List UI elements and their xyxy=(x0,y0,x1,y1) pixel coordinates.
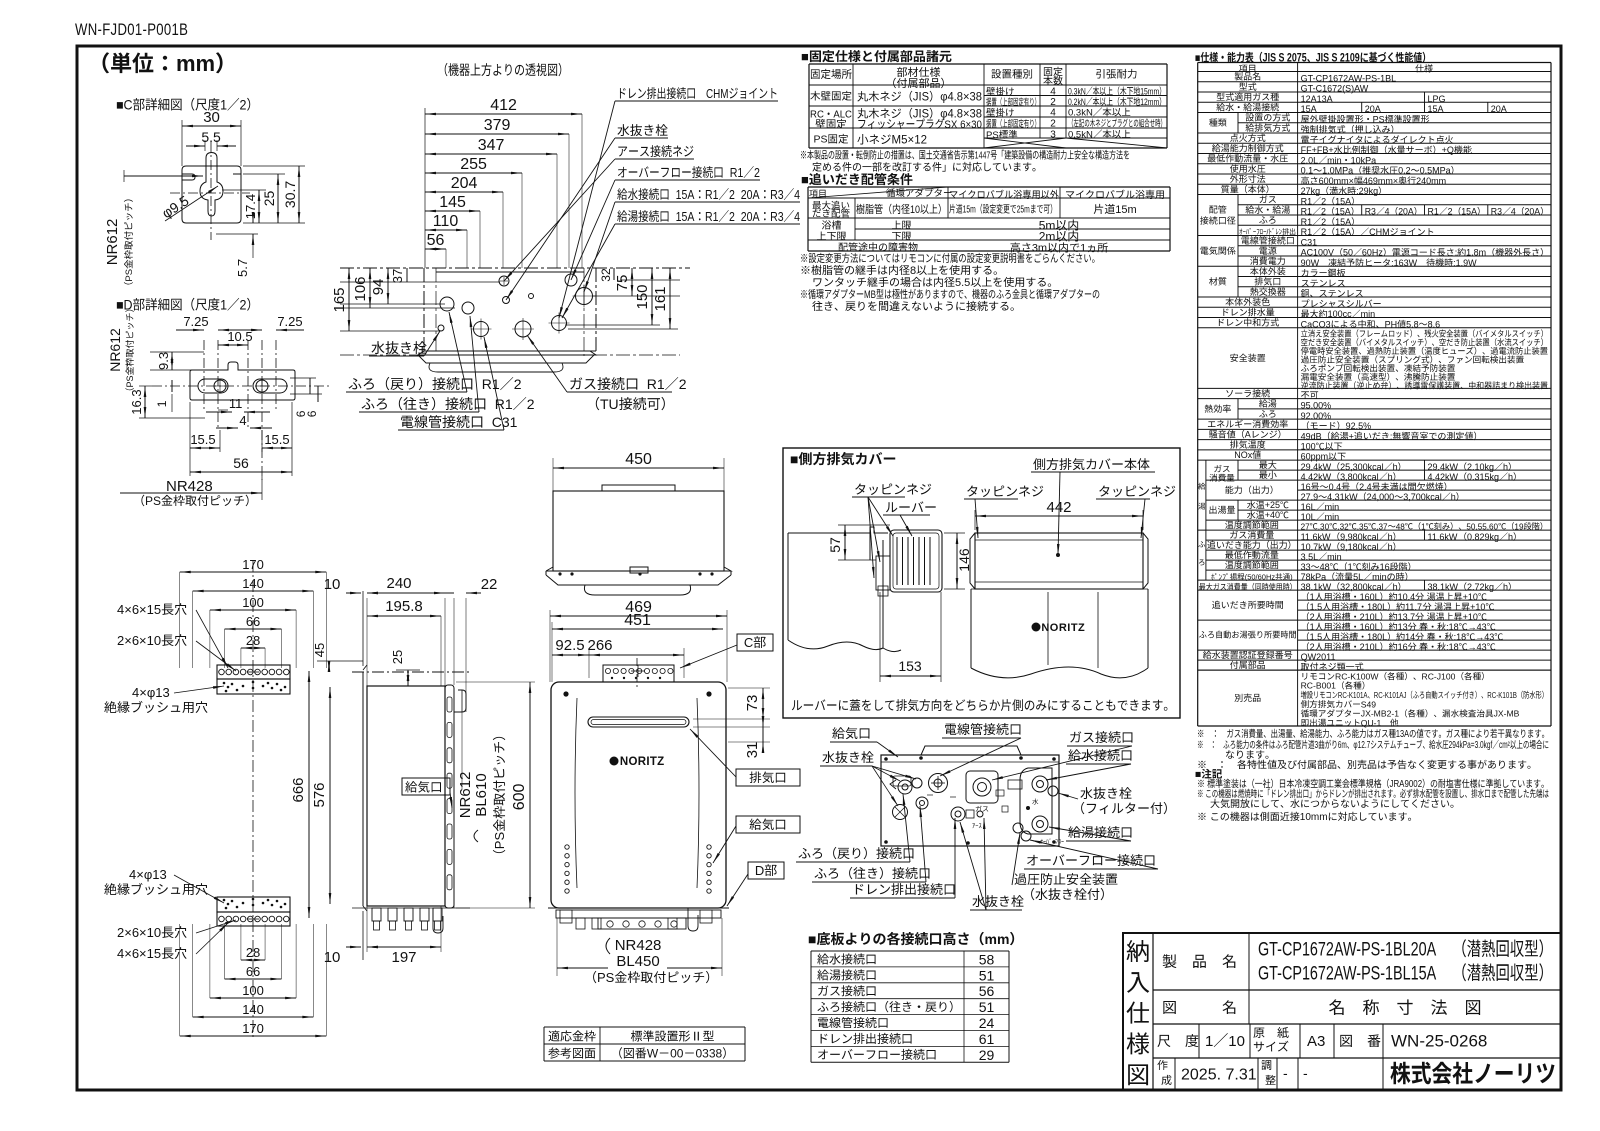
svg-text:min: min xyxy=(1325,512,1340,522)
svg-text:R1: R1 xyxy=(705,187,718,202)
svg-text:4: 4 xyxy=(239,413,246,428)
svg-text:PS: PS xyxy=(145,494,161,508)
svg-text:32: 32 xyxy=(599,268,613,282)
svg-text:■: ■ xyxy=(790,451,798,467)
svg-text:100cc: 100cc xyxy=(1328,309,1353,319)
svg-text:100: 100 xyxy=(1301,442,1316,452)
svg-text:19: 19 xyxy=(1514,522,1523,531)
svg-text:15A: 15A xyxy=(1335,217,1351,227)
svg-text:JX-MB: JX-MB xyxy=(1494,709,1520,719)
svg-text:7.25: 7.25 xyxy=(183,314,208,329)
svg-text:R1: R1 xyxy=(474,376,500,392)
svg-text:90W: 90W xyxy=(1301,258,1320,268)
svg-text:165: 165 xyxy=(331,287,348,312)
svg-text:24: 24 xyxy=(979,1015,995,1031)
svg-text:1.5: 1.5 xyxy=(1310,632,1323,642)
svg-text:NORITZ: NORITZ xyxy=(1041,622,1085,634)
svg-text:2: 2 xyxy=(679,376,687,392)
svg-text:106: 106 xyxy=(352,276,369,301)
svg-text:13.7: 13.7 xyxy=(1398,612,1416,622)
svg-text:29: 29 xyxy=(979,1047,995,1063)
svg-text:A: A xyxy=(1245,430,1251,440)
svg-text:h: h xyxy=(1388,532,1393,542)
svg-text:-: - xyxy=(1303,1065,1308,1081)
svg-text:600: 600 xyxy=(511,784,528,811)
svg-text:450: 450 xyxy=(625,451,652,468)
svg-text:CHM: CHM xyxy=(706,88,729,102)
svg-text:204: 204 xyxy=(451,175,478,192)
svg-text:RC: RC xyxy=(810,109,824,120)
svg-text:2: 2 xyxy=(1321,217,1326,227)
svg-text:CaCO3: CaCO3 xyxy=(1301,319,1331,329)
svg-text:14: 14 xyxy=(1405,632,1415,642)
svg-text:0.4: 0.4 xyxy=(1329,482,1342,492)
svg-text:LPG: LPG xyxy=(1428,94,1446,104)
svg-text:10.7kW: 10.7kW xyxy=(1301,542,1332,552)
svg-text:7.25: 7.25 xyxy=(277,314,302,329)
svg-text:PS: PS xyxy=(492,832,507,850)
svg-text:50: 50 xyxy=(1343,248,1353,258)
svg-text:73: 73 xyxy=(744,695,761,712)
svg-text:145: 145 xyxy=(439,194,466,211)
svg-text:58: 58 xyxy=(979,951,995,967)
svg-text:161: 161 xyxy=(652,286,669,311)
svg-text:h: h xyxy=(1451,492,1456,502)
svg-text:h: h xyxy=(1388,472,1393,482)
svg-text:48: 48 xyxy=(1320,562,1330,572)
svg-text:CHM: CHM xyxy=(1369,227,1390,237)
svg-text:C31: C31 xyxy=(484,414,518,430)
svg-text:10L: 10L xyxy=(1301,512,1316,522)
svg-text:24,000: 24,000 xyxy=(1367,492,1395,502)
svg-text:4: 4 xyxy=(794,209,800,224)
svg-text:25: 25 xyxy=(390,650,405,664)
svg-text::29kg: :29kg xyxy=(1356,186,1378,196)
svg-text:2.72kg: 2.72kg xyxy=(1467,582,1494,592)
svg-text:294kPa=3.0kgf: 294kPa=3.0kgf xyxy=(1449,739,1493,751)
svg-text:mm: mm xyxy=(985,931,1010,947)
svg-text:15A: 15A xyxy=(1335,227,1351,237)
svg-text:RC-K101B: RC-K101B xyxy=(1487,690,1517,700)
svg-text:h: h xyxy=(1388,542,1393,552)
svg-text:R3: R3 xyxy=(770,209,784,224)
svg-text:49dB: 49dB xyxy=(1301,431,1322,441)
svg-text:30.7: 30.7 xyxy=(282,181,298,208)
svg-text:10.5: 10.5 xyxy=(227,329,252,344)
svg-text:A3: A3 xyxy=(1307,1033,1325,1050)
svg-text:50,55,60: 50,55,60 xyxy=(1466,522,1498,531)
svg-text:QW2011: QW2011 xyxy=(1301,652,1336,662)
svg-text::1.9W: :1.9W xyxy=(1453,258,1477,268)
svg-text:5.5: 5.5 xyxy=(201,129,221,145)
svg-text:29.4kW: 29.4kW xyxy=(1301,462,1332,472)
svg-text:φ12.7: φ12.7 xyxy=(1353,739,1370,751)
svg-text:197: 197 xyxy=(392,949,417,966)
svg-text:2.4: 2.4 xyxy=(1359,482,1372,492)
svg-text:h: h xyxy=(1508,472,1513,482)
svg-text:153: 153 xyxy=(898,658,922,674)
svg-text:15.5: 15.5 xyxy=(190,432,215,447)
svg-text::: : xyxy=(1390,431,1393,441)
svg-text:+10: +10 xyxy=(1463,612,1478,622)
svg-text:1447: 1447 xyxy=(975,149,991,161)
svg-text:15.5: 15.5 xyxy=(264,432,289,447)
svg-text:R1: R1 xyxy=(1301,217,1313,227)
svg-text:h: h xyxy=(1393,582,1398,592)
svg-text:0.5MPa: 0.5MPa xyxy=(1420,166,1451,176)
svg-text:3: 3 xyxy=(1050,130,1056,141)
svg-text:10: 10 xyxy=(910,204,920,216)
svg-text:h: h xyxy=(1503,582,1508,592)
svg-text:6: 6 xyxy=(305,410,319,417)
svg-text:W: W xyxy=(647,1047,659,1061)
svg-text:5.7: 5.7 xyxy=(235,259,250,277)
svg-text:2: 2 xyxy=(754,165,760,180)
svg-text:2: 2 xyxy=(240,297,247,313)
svg-text:RC-K101AJ: RC-K101AJ xyxy=(1374,690,1407,700)
svg-text:JIS: JIS xyxy=(913,91,930,103)
svg-text:210L: 210L xyxy=(1360,642,1380,652)
svg-text:16L: 16L xyxy=(1301,502,1316,512)
svg-text:240mm: 240mm xyxy=(1416,176,1446,186)
svg-text:16: 16 xyxy=(1380,562,1390,572)
svg-text:347: 347 xyxy=(478,137,505,154)
svg-text:φ9.5: φ9.5 xyxy=(159,192,192,221)
svg-text:1: 1 xyxy=(1421,522,1426,531)
svg-text:,35: ,35 xyxy=(1357,522,1369,531)
svg-text:30: 30 xyxy=(203,109,220,126)
svg-text:2: 2 xyxy=(527,396,535,412)
svg-text:160L: 160L xyxy=(1360,592,1380,602)
svg-text:1: 1 xyxy=(1205,1033,1213,1050)
svg-text:0.829kg: 0.829kg xyxy=(1467,532,1499,542)
svg-text:2m: 2m xyxy=(1039,230,1056,244)
svg-text:min: min xyxy=(1372,572,1387,582)
svg-text:10: 10 xyxy=(324,576,341,593)
svg-text:h: h xyxy=(1393,462,1398,472)
svg-text:170: 170 xyxy=(242,1021,264,1036)
svg-text:5.5: 5.5 xyxy=(955,277,970,289)
svg-text:min: min xyxy=(1361,309,1376,319)
svg-text:0.1: 0.1 xyxy=(1301,166,1314,176)
svg-text:27.9: 27.9 xyxy=(1301,492,1319,502)
svg-text:0.2: 0.2 xyxy=(1398,166,1411,176)
svg-text::18: :18 xyxy=(1446,642,1459,652)
svg-text:4: 4 xyxy=(1050,87,1056,98)
svg-text:NR612: NR612 xyxy=(104,219,121,266)
svg-text:0338: 0338 xyxy=(696,1047,723,1061)
svg-text:8: 8 xyxy=(910,265,916,277)
svg-text:170: 170 xyxy=(242,557,264,572)
svg-text:451: 451 xyxy=(624,612,651,629)
svg-text:2 20A: 2 20A xyxy=(729,187,760,202)
svg-text:57: 57 xyxy=(827,537,843,553)
svg-text:-: - xyxy=(1283,1065,1288,1081)
svg-text:■: ■ xyxy=(808,931,816,947)
svg-text:100: 100 xyxy=(242,595,264,610)
svg-text:TU: TU xyxy=(600,396,619,412)
svg-text:2: 2 xyxy=(1321,196,1326,206)
svg-text:,30: ,30 xyxy=(1318,522,1330,531)
svg-text:SX 6×30: SX 6×30 xyxy=(944,118,982,131)
svg-text:■: ■ xyxy=(801,172,809,187)
svg-text:442: 442 xyxy=(1047,499,1072,516)
svg-text:11.6kW: 11.6kW xyxy=(1301,532,1331,542)
svg-text:20A: 20A xyxy=(1525,207,1541,217)
svg-text:16.3: 16.3 xyxy=(129,389,144,414)
svg-text:GT-CP1672AW-PS-1BL15A: GT-CP1672AW-PS-1BL15A xyxy=(1258,963,1437,984)
svg-text:66: 66 xyxy=(246,614,260,629)
svg-text:10.4: 10.4 xyxy=(1398,592,1416,602)
svg-text:48: 48 xyxy=(1396,522,1405,531)
svg-text:27kg: 27kg xyxy=(1301,186,1321,196)
svg-text:15A: 15A xyxy=(1301,104,1317,114)
svg-text:BL610: BL610 xyxy=(473,773,490,816)
svg-text:1.5: 1.5 xyxy=(1310,602,1323,612)
svg-text:→43: →43 xyxy=(1468,622,1487,632)
svg-text:QU-1: QU-1 xyxy=(1361,718,1382,728)
svg-text:20A: 20A xyxy=(1365,104,1381,114)
svg-text:R1: R1 xyxy=(639,376,665,392)
svg-text:h: h xyxy=(1503,462,1508,472)
svg-text:5L: 5L xyxy=(1353,572,1363,582)
svg-text:NOx: NOx xyxy=(1234,450,1253,460)
svg-text:4: 4 xyxy=(1511,207,1516,217)
svg-text:h: h xyxy=(1508,532,1513,542)
svg-text:+40: +40 xyxy=(1265,510,1280,520)
svg-text:RC-B001: RC-B001 xyxy=(1301,681,1337,691)
svg-text:9,180kcal: 9,180kcal xyxy=(1340,542,1379,552)
svg-text:146: 146 xyxy=(956,548,972,572)
svg-text:4×φ13: 4×φ13 xyxy=(129,867,167,882)
svg-text:12A13A: 12A13A xyxy=(1301,94,1333,104)
svg-text:WN-25-0268: WN-25-0268 xyxy=(1391,1032,1487,1051)
svg-text:16: 16 xyxy=(1301,482,1311,492)
svg-text:11.7: 11.7 xyxy=(1405,602,1422,612)
svg-text:GT-C1672(S)AW: GT-C1672(S)AW xyxy=(1301,84,1369,94)
svg-text:4: 4 xyxy=(794,187,800,202)
svg-text:11: 11 xyxy=(229,396,243,411)
svg-text:2: 2 xyxy=(1310,642,1315,652)
svg-text:266: 266 xyxy=(588,637,613,654)
svg-text:56: 56 xyxy=(979,983,995,999)
svg-text:PS: PS xyxy=(986,130,999,141)
svg-text:R1: R1 xyxy=(1301,196,1313,206)
svg-text:160L: 160L xyxy=(1360,622,1380,632)
svg-text:110: 110 xyxy=(433,213,459,230)
svg-text:→43: →43 xyxy=(1468,642,1487,652)
svg-text:2025. 7.31: 2025. 7.31 xyxy=(1181,1067,1257,1084)
svg-text:R1: R1 xyxy=(724,165,744,180)
svg-text:25m: 25m xyxy=(1017,203,1030,215)
svg-text:FF+FB+: FF+FB+ xyxy=(1301,145,1334,155)
svg-text:■C: ■C xyxy=(116,97,133,113)
svg-text:5.8: 5.8 xyxy=(1406,319,1419,329)
svg-text:1: 1 xyxy=(1348,562,1353,572)
svg-text:3m: 3m xyxy=(1032,243,1047,255)
svg-text:56: 56 xyxy=(233,455,249,471)
svg-text:4×φ13: 4×φ13 xyxy=(132,685,170,700)
svg-text:150: 150 xyxy=(634,284,651,309)
svg-text:4: 4 xyxy=(1385,206,1390,216)
svg-text:11.6kW: 11.6kW xyxy=(1428,532,1458,542)
svg-text:4: 4 xyxy=(1050,108,1056,119)
svg-text:9,980kcal: 9,980kcal xyxy=(1340,532,1379,542)
svg-text:15A: 15A xyxy=(670,187,695,202)
svg-text:15A: 15A xyxy=(670,209,695,224)
svg-text:(50/60Hz: (50/60Hz xyxy=(1245,573,1276,582)
svg-text:NR612: NR612 xyxy=(457,772,474,819)
svg-text:2: 2 xyxy=(1310,612,1315,622)
svg-text:M5×12: M5×12 xyxy=(892,135,927,147)
svg-text:cm²: cm² xyxy=(1499,739,1510,751)
svg-text:3,800kcal: 3,800kcal xyxy=(1340,472,1379,482)
svg-text:GT-CP1672AW-PS-1BL20A: GT-CP1672AW-PS-1BL20A xyxy=(1258,939,1437,960)
svg-text:JRA9002: JRA9002 xyxy=(1390,778,1423,789)
svg-text:D: D xyxy=(755,863,764,878)
svg-text:■: ■ xyxy=(1195,769,1201,781)
svg-text:NR428: NR428 xyxy=(615,937,662,954)
svg-text:2: 2 xyxy=(1448,207,1453,217)
svg-text:94: 94 xyxy=(370,279,387,296)
svg-text:R1: R1 xyxy=(1301,227,1313,237)
svg-text:6m: 6m xyxy=(1338,739,1347,751)
svg-text:R1: R1 xyxy=(487,396,513,412)
svg-text:9.3: 9.3 xyxy=(156,352,171,370)
svg-text:600mm×: 600mm× xyxy=(1319,176,1354,186)
svg-text:78kPa: 78kPa xyxy=(1301,572,1327,582)
svg-text:NR428: NR428 xyxy=(166,478,213,495)
svg-text:10mm: 10mm xyxy=(1300,812,1328,823)
svg-text:60ppm: 60ppm xyxy=(1301,452,1329,462)
svg-text:R1: R1 xyxy=(1428,207,1439,217)
svg-text:NR612: NR612 xyxy=(107,328,123,372)
svg-text:4×6×15: 4×6×15 xyxy=(117,946,161,961)
svg-text:29.4kW: 29.4kW xyxy=(1428,462,1459,472)
svg-text:15m: 15m xyxy=(1115,204,1136,216)
svg-text:0.3kN: 0.3kN xyxy=(1068,108,1093,119)
svg-text:■: ■ xyxy=(801,49,809,64)
svg-text:379: 379 xyxy=(484,117,511,134)
svg-text:C: C xyxy=(744,635,753,650)
svg-text:75: 75 xyxy=(614,275,631,292)
svg-text:17.4: 17.4 xyxy=(243,194,258,219)
svg-text:15A: 15A xyxy=(1335,196,1351,206)
svg-text:195.8: 195.8 xyxy=(385,598,423,615)
svg-text:37: 37 xyxy=(390,269,405,283)
svg-text:28: 28 xyxy=(246,945,260,960)
svg-text:38.1kW: 38.1kW xyxy=(1301,582,1332,592)
svg-text:+: + xyxy=(1349,431,1354,441)
svg-text:20A: 20A xyxy=(1398,206,1414,216)
svg-text:66: 66 xyxy=(246,964,260,979)
svg-text:15m: 15m xyxy=(963,203,976,215)
svg-text:2: 2 xyxy=(514,376,522,392)
svg-text:210L: 210L xyxy=(1360,612,1380,622)
svg-text:10: 10 xyxy=(1228,1033,1245,1050)
svg-text:PS: PS xyxy=(814,134,828,146)
svg-text:2: 2 xyxy=(240,97,247,113)
svg-text:0.315kg: 0.315kg xyxy=(1467,472,1499,482)
svg-text:min: min xyxy=(1325,502,1340,512)
svg-text:33: 33 xyxy=(1301,562,1311,572)
svg-text:,32: ,32 xyxy=(1337,522,1349,531)
svg-text:255: 255 xyxy=(460,156,487,173)
svg-text:2×6×10: 2×6×10 xyxy=(117,633,161,648)
svg-text:32,800kcal: 32,800kcal xyxy=(1340,582,1384,592)
svg-text:10kPa: 10kPa xyxy=(1351,155,1377,165)
svg-text:25: 25 xyxy=(261,191,277,207)
svg-text::18: :18 xyxy=(1454,632,1467,642)
svg-text:2×6×10: 2×6×10 xyxy=(117,925,161,940)
svg-text:51: 51 xyxy=(979,967,995,983)
svg-text:4.42kW: 4.42kW xyxy=(1301,472,1332,482)
svg-text:JIS: JIS xyxy=(913,108,930,120)
svg-text:0.3kN: 0.3kN xyxy=(1068,86,1086,96)
svg-text:15mm: 15mm xyxy=(1140,86,1159,96)
svg-text:412: 412 xyxy=(490,97,517,114)
svg-text::163W: :163W xyxy=(1391,258,1418,268)
svg-text:mm: mm xyxy=(176,51,215,76)
svg-text:,37: ,37 xyxy=(1376,522,1388,531)
svg-text:1: 1 xyxy=(220,97,227,113)
svg-text:61: 61 xyxy=(979,1031,995,1047)
svg-text:1: 1 xyxy=(1310,592,1315,602)
svg-text:4×6×15: 4×6×15 xyxy=(117,602,161,617)
svg-text:3: 3 xyxy=(1315,739,1319,751)
svg-text:R3: R3 xyxy=(1491,207,1502,217)
svg-text:3.5L: 3.5L xyxy=(1301,552,1319,562)
svg-text:15A: 15A xyxy=(1428,104,1444,114)
svg-text:PS: PS xyxy=(1373,114,1385,124)
svg-text:15A: 15A xyxy=(1335,207,1351,217)
svg-text:60Hz: 60Hz xyxy=(1362,248,1383,258)
svg-text:2 20A: 2 20A xyxy=(729,209,760,224)
svg-text:15A: 15A xyxy=(1461,207,1477,217)
svg-text:min: min xyxy=(1327,552,1342,562)
svg-text:666: 666 xyxy=(290,777,307,802)
svg-text:00: 00 xyxy=(670,1047,684,1061)
svg-text:13: 13 xyxy=(1398,622,1408,632)
svg-text:2.10kg: 2.10kg xyxy=(1467,462,1494,472)
svg-text:56: 56 xyxy=(427,232,445,249)
svg-text:240: 240 xyxy=(387,575,412,592)
svg-text:+Q: +Q xyxy=(1442,145,1454,155)
svg-text:R3: R3 xyxy=(1365,206,1376,216)
svg-text:469mm×: 469mm× xyxy=(1363,176,1398,186)
svg-text:MB: MB xyxy=(864,289,876,302)
svg-text:PS: PS xyxy=(124,269,135,282)
svg-text:+25: +25 xyxy=(1265,500,1280,510)
svg-text:+10: +10 xyxy=(1470,602,1485,612)
svg-text:3,700kcal: 3,700kcal xyxy=(1403,492,1442,502)
svg-text::: : xyxy=(1455,248,1457,258)
svg-text:GT-CP1672AW-PS-1BL: GT-CP1672AW-PS-1BL xyxy=(1301,73,1397,83)
svg-text:2: 2 xyxy=(1050,97,1056,108)
svg-text:→43: →43 xyxy=(1475,632,1494,642)
svg-text:1: 1 xyxy=(1080,243,1086,255)
svg-text:38.1kW: 38.1kW xyxy=(1428,582,1459,592)
svg-text:100: 100 xyxy=(242,983,264,998)
svg-text:0.5kN: 0.5kN xyxy=(1068,130,1093,141)
svg-text:PS: PS xyxy=(125,375,135,387)
svg-text:2: 2 xyxy=(1321,227,1326,237)
svg-text:PS: PS xyxy=(597,970,615,985)
svg-text:12mm: 12mm xyxy=(1140,97,1159,107)
svg-text:140: 140 xyxy=(242,1002,264,1017)
svg-text:8.6: 8.6 xyxy=(1428,319,1441,329)
svg-text:WN-FJD01-P001B: WN-FJD01-P001B xyxy=(75,22,188,40)
